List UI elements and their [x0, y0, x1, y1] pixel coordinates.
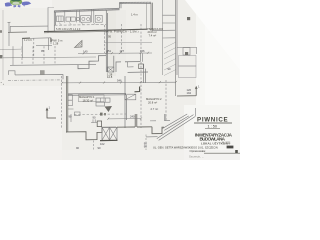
svg-text:95: 95: [41, 49, 44, 53]
svg-text:PIWNICE: PIWNICE: [197, 116, 228, 123]
svg-text:127: 127: [120, 49, 125, 53]
svg-text:95: 95: [108, 34, 111, 38]
svg-text:1.28: 1.28: [53, 42, 59, 46]
svg-text:20.8 m²: 20.8 m²: [148, 100, 157, 104]
svg-text:UL. GEN. GETTA WARSZAWSKIEGO 1: UL. GEN. GETTA WARSZAWSKIEGO 1/U1, SZCZE…: [153, 146, 218, 150]
svg-text:7.4 m²: 7.4 m²: [149, 33, 157, 37]
svg-text:Opracowała:: Opracowała:: [190, 149, 206, 153]
svg-text:1 : 50: 1 : 50: [208, 124, 218, 128]
svg-text:194: 194: [187, 91, 192, 95]
svg-text:2.7 m²: 2.7 m²: [151, 107, 159, 111]
svg-text:240: 240: [130, 114, 135, 118]
svg-text:140: 140: [83, 49, 88, 53]
svg-text:90: 90: [98, 146, 101, 150]
svg-text:M. 2021: M. 2021: [222, 141, 231, 144]
svg-text:90: 90: [144, 145, 147, 149]
svg-text:1.2 0.9: 1.2 0.9: [24, 39, 32, 42]
svg-text:90: 90: [76, 146, 79, 150]
svg-text:90: 90: [168, 67, 171, 71]
svg-text:251: 251: [107, 49, 112, 53]
svg-text:546: 546: [117, 78, 122, 82]
svg-text:90: 90: [93, 116, 96, 120]
svg-text:102: 102: [100, 142, 105, 146]
svg-text:12.8: 12.8: [107, 75, 113, 79]
svg-text:5.05 1.60 2.25 1.4 2.0: 5.05 1.60 2.25 1.4 2.0: [56, 28, 81, 31]
svg-text:90: 90: [69, 115, 72, 119]
svg-text:156: 156: [140, 49, 145, 53]
svg-text:( PIW. PIWNICA - 1,5M ): ( PIW. PIWNICA - 1,5M ): [105, 30, 139, 34]
svg-text:1.4 m: 1.4 m: [131, 13, 138, 17]
svg-text:18.30 m²: 18.30 m²: [83, 99, 94, 103]
svg-text:Szczecin, ...: Szczecin, ...: [189, 154, 204, 158]
svg-text:MAGAZYN 1: MAGAZYN 1: [79, 95, 95, 99]
svg-text:20.8 m²: 20.8 m²: [148, 30, 157, 34]
